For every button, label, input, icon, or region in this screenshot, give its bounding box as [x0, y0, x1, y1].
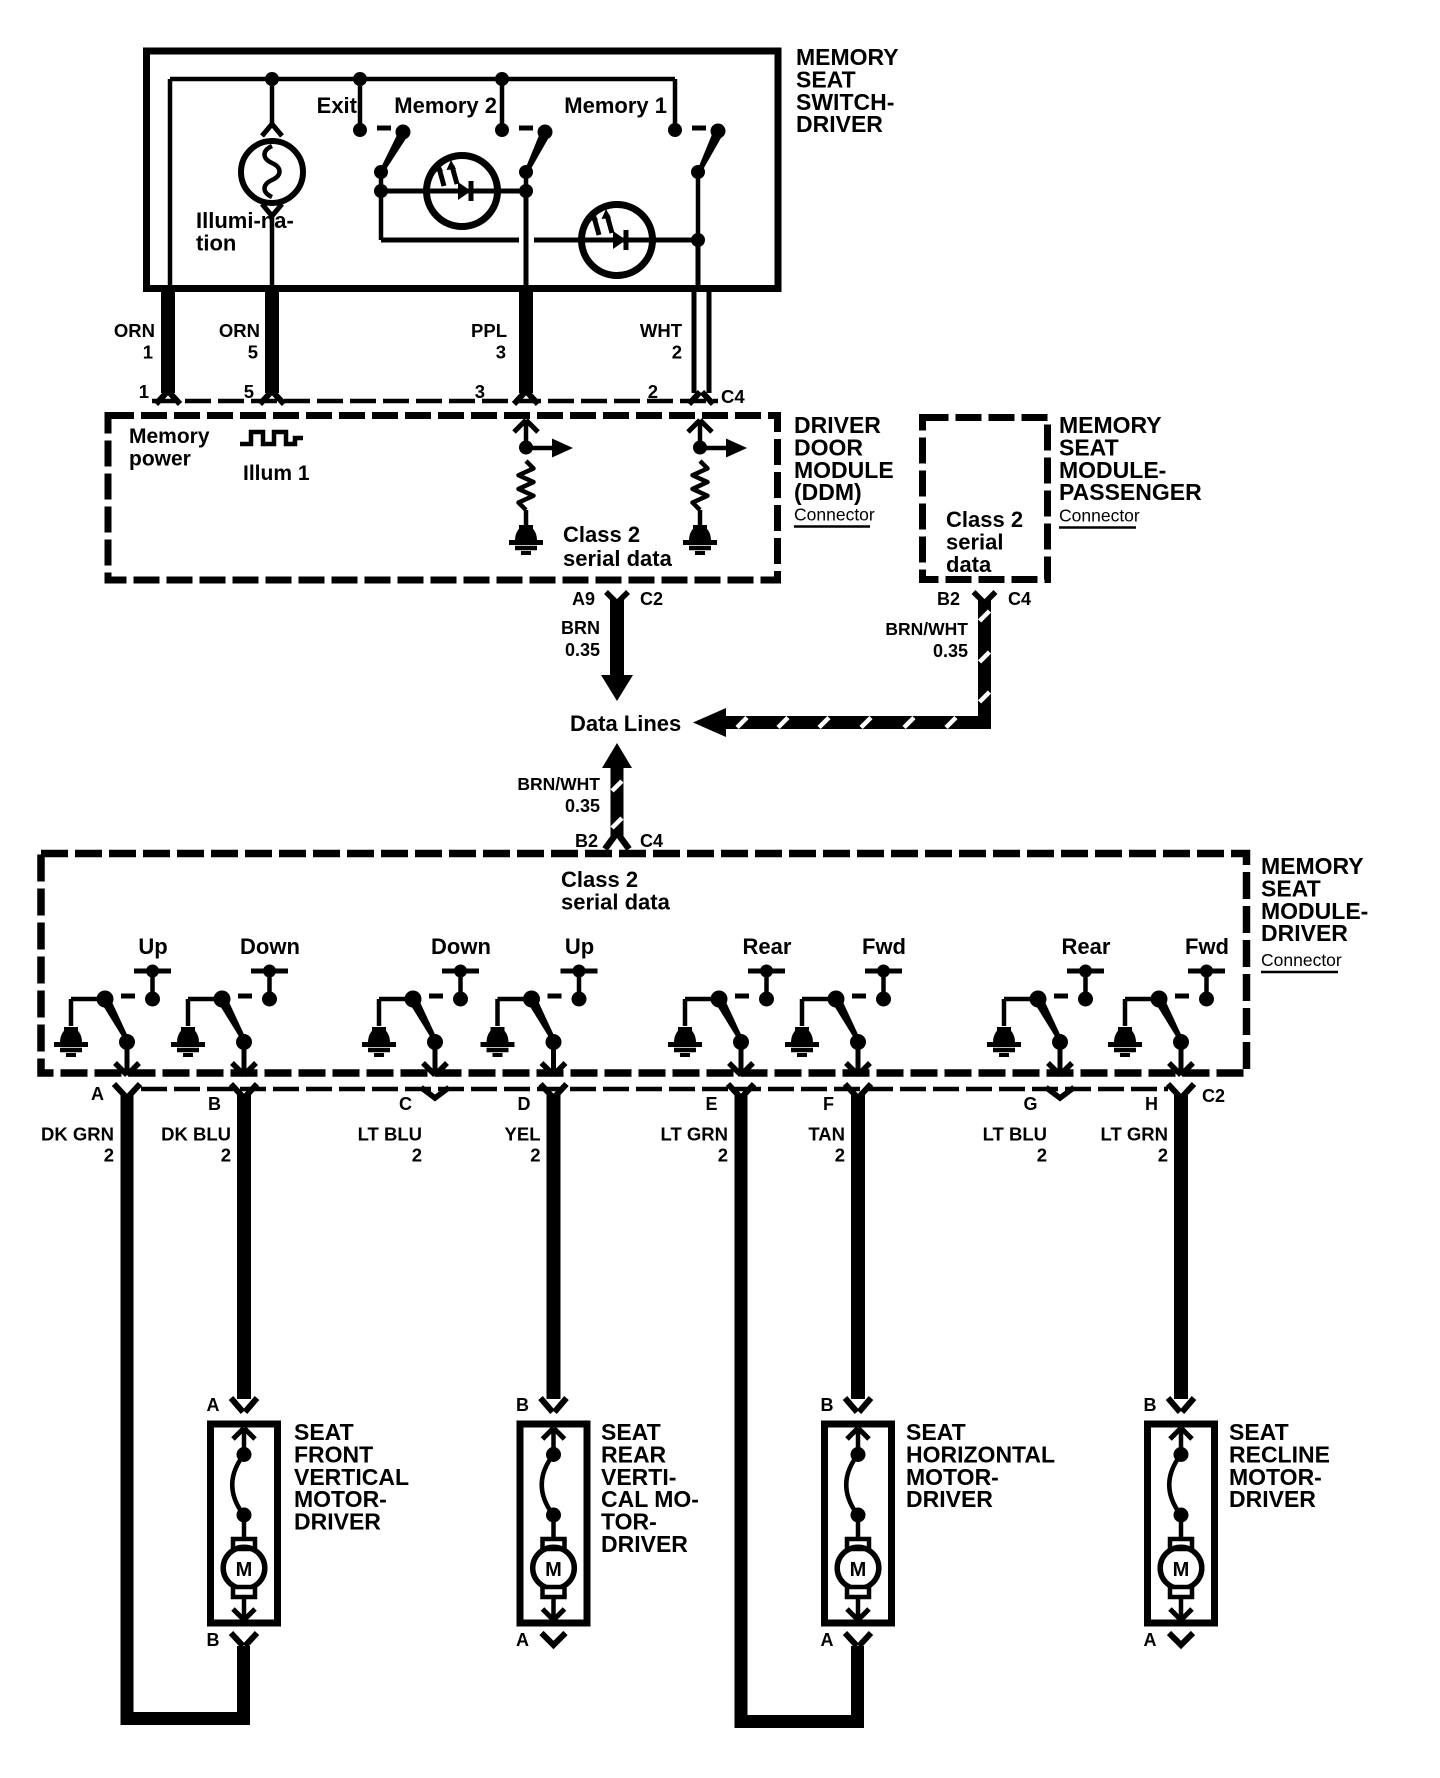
ground: switch A	[60, 1028, 82, 1043]
node: Memory2 fixed contact	[495, 123, 509, 137]
node: B output contact	[236, 1034, 252, 1050]
label: Class 2 serial data (DDM)	[563, 522, 673, 571]
node: Memory1 fixed contact	[668, 123, 682, 137]
wire: Memory2 contact to LED1 bus	[524, 172, 529, 191]
wire: LED2 bus right segment (break at crossing)	[534, 238, 698, 243]
node: WHT branch junction	[693, 441, 707, 455]
ground: switch E	[674, 1028, 696, 1043]
switch SW1 Exit: contact stub	[358, 79, 363, 128]
node: H output contact	[1173, 1034, 1189, 1050]
svg-text:2: 2	[672, 342, 682, 363]
label: ORN / 5	[219, 320, 260, 363]
svg-text:(DDM): (DDM)	[794, 479, 862, 505]
motor M2 seat rear vertical: bottom arrow	[543, 1597, 565, 1620]
label: M4 seat recline	[1229, 1419, 1330, 1512]
symbol: Illum 1 pulse waveform	[240, 432, 303, 444]
connector pin symbol B (motor M4 seat recline)	[1168, 1398, 1180, 1412]
svg-text:D: D	[518, 1094, 531, 1114]
svg-text:M: M	[545, 1559, 562, 1581]
arrow: B output to connector	[232, 1042, 256, 1075]
switch: seat Down (C)	[379, 934, 491, 1026]
svg-text:2: 2	[835, 1145, 845, 1166]
label: BRN / 0.35	[561, 618, 600, 660]
arrow: A output to connector	[115, 1042, 139, 1075]
motor M4 seat recline: brush	[1170, 1587, 1192, 1597]
arrow: F output to connector	[846, 1042, 870, 1075]
node: A output contact	[119, 1034, 135, 1050]
motor M3 seat horizontal: brush	[847, 1539, 869, 1549]
svg-text:Illum 1: Illum 1	[243, 462, 310, 485]
motor M3 seat horizontal: armature M	[837, 1547, 879, 1589]
svg-text:H: H	[1145, 1094, 1158, 1114]
box: MEMORY SEAT MODULE-PASSENGER	[923, 418, 1048, 580]
box: M4 seat recline motor-driver	[1148, 1424, 1215, 1623]
motor M3 seat horizontal: brush	[847, 1587, 869, 1597]
svg-text:serial data: serial data	[563, 546, 673, 571]
wire: top bus	[170, 77, 675, 82]
svg-text:M: M	[1173, 1559, 1190, 1581]
svg-text:A: A	[207, 1395, 220, 1415]
motor M3 seat horizontal: sensor top node	[851, 1447, 866, 1462]
svg-text:DK GRN: DK GRN	[41, 1124, 114, 1145]
wire: BRN/WHT 0.35 driver module to data lines (up arrow)	[602, 743, 632, 836]
svg-text:DRIVER: DRIVER	[906, 1486, 993, 1512]
svg-text:Down: Down	[240, 934, 300, 959]
label: Memory power	[129, 425, 210, 470]
svg-text:LT BLU: LT BLU	[983, 1124, 1047, 1145]
node: Memory1 blade pivot	[711, 124, 726, 139]
svg-text:Illumi-na-: Illumi-na-	[196, 208, 294, 233]
switch blade: B	[219, 999, 247, 1042]
LED D1: memory 2 indicator	[427, 156, 498, 227]
svg-text:BRN: BRN	[561, 618, 600, 638]
switch blade: G	[1035, 999, 1063, 1042]
label: DRIVER DOOR MODULE (DDM)	[794, 412, 894, 505]
svg-text:BRN/WHT: BRN/WHT	[885, 619, 968, 639]
motor M4 seat recline: armature M	[1160, 1547, 1202, 1589]
svg-text:B: B	[821, 1395, 834, 1415]
wire: WHT vertical inside box	[696, 240, 701, 285]
svg-text:data: data	[946, 552, 992, 577]
svg-text:DRIVER: DRIVER	[294, 1509, 381, 1535]
svg-text:0.35: 0.35	[933, 641, 968, 661]
motor M3 seat horizontal: top arrow	[847, 1428, 869, 1454]
arrow: WHT data branch (right)	[700, 439, 747, 458]
motor M4 seat recline: brush	[1170, 1539, 1192, 1549]
svg-text:3: 3	[496, 342, 506, 363]
connector pin symbol A (motor M1 seat front vertical)	[231, 1398, 243, 1412]
box: M1 seat front vertical motor-driver	[211, 1424, 278, 1623]
stripes on BRN/WHT wire	[737, 611, 989, 727]
svg-text:B: B	[516, 1395, 529, 1415]
motor M2 seat rear vertical: top arrow	[543, 1428, 565, 1454]
motor M1 seat front vertical: brush	[233, 1539, 255, 1549]
svg-text:Connector: Connector	[794, 505, 875, 525]
label: Connector (DDM)	[794, 505, 875, 527]
LED D2: memory 1 indicator	[582, 205, 653, 276]
resistor: PPL termination	[519, 461, 534, 510]
node: Exit lower contact	[374, 165, 388, 179]
label: YEL / 2 (D)	[505, 1124, 541, 1166]
svg-text:G: G	[1023, 1094, 1037, 1114]
svg-text:B: B	[1144, 1395, 1157, 1415]
svg-text:2: 2	[1158, 1145, 1168, 1166]
motor M2 seat rear vertical: lead to armature	[551, 1515, 556, 1539]
svg-text:Memory 2: Memory 2	[394, 93, 497, 118]
box: M2 seat rear vertical motor-driver	[520, 1424, 587, 1623]
svg-text:Down: Down	[431, 934, 491, 959]
box: MEMORY SEAT SWITCH-DRIVER	[147, 51, 779, 289]
label: BRN/WHT / 0.35 (driver)	[517, 774, 600, 816]
svg-text:PASSENGER: PASSENGER	[1059, 479, 1202, 505]
label: Illumi-na-tion	[196, 208, 294, 255]
svg-text:Memory: Memory	[129, 425, 210, 448]
switch SW2 Memory2: dashed link	[519, 126, 533, 131]
wire: resistor to ground	[524, 510, 529, 525]
motor M2 seat rear vertical: armature M	[533, 1547, 575, 1589]
switch: seat Up (A)	[71, 934, 171, 1026]
arrow: G output to connector	[1048, 1042, 1072, 1075]
svg-text:B2: B2	[937, 589, 960, 609]
motor M1 seat front vertical: armature M	[223, 1547, 265, 1589]
connector pin symbol A (motor bottom)	[845, 1633, 857, 1646]
box: DRIVER DOOR MODULE (DDM)	[108, 416, 778, 581]
switch SW3 Memory1: dashed link	[692, 126, 706, 131]
svg-text:B: B	[207, 1630, 220, 1650]
wire: resistor to ground	[698, 510, 703, 525]
wire: LED2 bus left segment	[381, 238, 519, 243]
motor M2 seat rear vertical: sensor bottom node	[546, 1508, 561, 1523]
label: WHT / 2	[640, 320, 683, 363]
node: E output contact	[733, 1034, 749, 1050]
wire: ORN circuit 1	[161, 285, 175, 393]
box: M3 seat horizontal motor-driver	[825, 1424, 892, 1623]
svg-text:LT GRN: LT GRN	[661, 1124, 728, 1145]
switch blade: C	[410, 999, 438, 1042]
switch blade: H	[1156, 999, 1184, 1042]
motor M1 seat front vertical: brush	[233, 1587, 255, 1597]
label: Class 2 serial data (passenger)	[946, 507, 1023, 577]
svg-text:YEL: YEL	[505, 1124, 541, 1145]
connector pin symbol A	[114, 1084, 126, 1097]
node: G output contact	[1052, 1034, 1068, 1050]
svg-text:M: M	[850, 1559, 867, 1581]
svg-text:C4: C4	[640, 831, 663, 851]
motor M3 seat horizontal: sensor bottom node	[851, 1508, 866, 1523]
label: TAN / 2 (F)	[808, 1124, 845, 1166]
svg-text:C: C	[399, 1094, 412, 1114]
arrow: H output to connector	[1169, 1042, 1193, 1075]
motor M1 seat front vertical: sensor bottom node	[237, 1508, 252, 1523]
node: Exit fixed contact	[353, 123, 367, 137]
label: ORN / 1	[114, 320, 155, 363]
motor M1 seat front vertical: position sensor arc	[232, 1455, 244, 1515]
svg-text:Exit: Exit	[317, 93, 358, 118]
switch blade: A	[102, 999, 130, 1042]
connector pin symbol A (motor bottom)	[1169, 1633, 1193, 1645]
svg-text:B: B	[208, 1094, 221, 1114]
svg-text:A: A	[1144, 1630, 1157, 1650]
connector pin symbol H	[1168, 1084, 1180, 1097]
wire: LT GRN 2 (E) with return loop to motor 3	[741, 1095, 858, 1722]
label: M1 seat front vertical	[294, 1419, 409, 1535]
wire: PPL circuit 3	[519, 285, 533, 393]
connector pin symbol D	[541, 1084, 553, 1097]
wire: left side vertical (to ORN 1)	[168, 79, 173, 285]
switch blade: F	[833, 999, 861, 1042]
svg-text:ORN: ORN	[219, 320, 260, 341]
node: Memory1/LED2/WHT junction	[691, 233, 705, 247]
arrow: class2 WHT entry (up)	[688, 420, 712, 447]
svg-text:E: E	[705, 1094, 717, 1114]
motor M3 seat horizontal: lead to armature	[856, 1515, 861, 1539]
svg-text:Fwd: Fwd	[1185, 934, 1229, 959]
switch: seat Down (B)	[188, 934, 300, 1026]
wire: WHT circuit 2 (white wire, double line)	[694, 285, 709, 393]
switch SW2 Memory2: blade	[525, 132, 550, 172]
connector pin symbol F	[845, 1084, 857, 1097]
motor M4 seat recline: position sensor arc	[1169, 1455, 1181, 1515]
connector dashed line (DDM C4)	[152, 399, 718, 404]
connector pin 1 symbol	[156, 392, 167, 404]
svg-text:Fwd: Fwd	[862, 934, 906, 959]
svg-text:B2: B2	[575, 831, 598, 851]
switch: seat Rear (E)	[685, 934, 792, 1026]
svg-text:2: 2	[221, 1145, 231, 1166]
svg-text:power: power	[129, 447, 191, 470]
connector pin symbol E	[728, 1084, 740, 1097]
node: Exit blade pivot	[396, 125, 411, 140]
connector exit symbol B2/C4 (passenger)	[974, 592, 984, 602]
label: Connector (driver)	[1261, 950, 1342, 972]
svg-text:C4: C4	[721, 386, 745, 407]
ground: switch B	[177, 1028, 199, 1043]
switch: seat Fwd (H)	[1125, 934, 1229, 1026]
wire: lamp top lead	[270, 79, 275, 124]
wire: bus right corner stub	[673, 79, 678, 128]
svg-text:2: 2	[412, 1145, 422, 1166]
svg-text:DRIVER: DRIVER	[1229, 1486, 1316, 1512]
svg-text:PPL: PPL	[471, 320, 507, 341]
wire: LED1 bus	[381, 189, 526, 194]
connector pin symbol C (no wire)	[421, 1088, 449, 1099]
ground: switch C	[368, 1028, 390, 1043]
connector pin 5 symbol	[260, 392, 271, 404]
svg-text:1: 1	[139, 381, 149, 402]
svg-text:F: F	[823, 1094, 834, 1114]
wire: DK BLU 2 (B)	[237, 1095, 251, 1399]
svg-text:LT GRN: LT GRN	[1101, 1124, 1168, 1145]
ground: WHT termination	[689, 526, 711, 541]
arrow: class2 PPL entry (up)	[514, 420, 538, 447]
svg-text:2: 2	[530, 1145, 540, 1166]
svg-text:LT BLU: LT BLU	[358, 1124, 422, 1145]
svg-text:A: A	[821, 1630, 834, 1650]
svg-text:Class 2: Class 2	[561, 867, 638, 892]
lamp top chevron	[262, 124, 282, 136]
ground: switch F	[791, 1028, 813, 1043]
node: Memory2 blade pivot	[538, 125, 553, 140]
lamp L1: illumination bulb	[241, 141, 303, 203]
motor M2 seat rear vertical: brush	[543, 1587, 565, 1597]
ground: PPL termination	[515, 526, 537, 541]
node: bus/illumination junction	[265, 72, 279, 86]
svg-text:serial: serial	[946, 529, 1004, 554]
wire: BRN 0.35 (down arrow)	[601, 600, 633, 701]
svg-text:serial data: serial data	[561, 890, 671, 915]
wire: Exit contact to LED1 bus	[379, 172, 384, 191]
connector pin symbol B	[231, 1084, 243, 1097]
arrow: E output to connector	[729, 1042, 753, 1075]
switch blade: E	[716, 999, 744, 1042]
label: DK BLU / 2 (B)	[161, 1124, 231, 1166]
label: LT GRN / 2 (E)	[661, 1124, 728, 1166]
svg-text:2: 2	[718, 1145, 728, 1166]
svg-text:C2: C2	[1202, 1086, 1225, 1106]
arrow: C output to connector	[423, 1042, 447, 1075]
switch SW3 Memory1: blade	[698, 131, 723, 171]
wire: LED1 bus to LED2 bus drop	[379, 191, 384, 240]
node: bus/Memory2 junction	[495, 72, 509, 86]
svg-text:Connector: Connector	[1261, 950, 1342, 970]
motor M4 seat recline: lead to armature	[1179, 1515, 1184, 1539]
node: F output contact	[850, 1034, 866, 1050]
label: BRN/WHT / 0.35 (passenger)	[885, 619, 968, 661]
svg-text:DRIVER: DRIVER	[601, 1531, 688, 1557]
svg-text:2: 2	[1037, 1145, 1047, 1166]
svg-text:DRIVER: DRIVER	[796, 111, 883, 137]
label: MEMORY SEAT MODULE-PASSENGER	[1059, 412, 1202, 505]
wire: BRN/WHT 0.35 passenger to data lines	[693, 600, 985, 737]
connector dashed line (driver module C2)	[141, 1087, 1168, 1092]
motor M1 seat front vertical: sensor top node	[237, 1447, 252, 1462]
connector pin symbol B (motor bottom)	[231, 1633, 243, 1646]
svg-text:DK BLU: DK BLU	[161, 1124, 231, 1145]
label: LT BLU / 2 (G)	[983, 1124, 1047, 1166]
ground: switch H	[1114, 1028, 1136, 1043]
motor M2 seat rear vertical: position sensor arc	[542, 1455, 554, 1515]
svg-text:1: 1	[143, 342, 153, 363]
svg-text:TAN: TAN	[808, 1124, 845, 1145]
label: M3 seat horizontal	[906, 1419, 1055, 1512]
ground: switch D	[487, 1028, 509, 1043]
wire: lamp bottom lead (to ORN 5)	[270, 216, 275, 285]
node: PPL branch junction	[519, 441, 533, 455]
svg-text:Rear: Rear	[1062, 934, 1111, 959]
node: C output contact	[427, 1034, 443, 1050]
motor M1 seat front vertical: lead to armature	[242, 1515, 247, 1539]
motor M4 seat recline: sensor top node	[1174, 1447, 1189, 1462]
motor M1 seat front vertical: bottom arrow	[233, 1597, 255, 1620]
node: Exit/LED1 junction	[374, 184, 388, 198]
connector pin symbol B (motor M2 seat rear vertical)	[541, 1398, 553, 1412]
wire: DK GRN 2 (A) with return loop to motor 1	[127, 1095, 244, 1719]
arrow: D output to connector	[542, 1042, 566, 1075]
lamp bottom chevron	[262, 204, 282, 216]
svg-text:Memory 1: Memory 1	[564, 93, 667, 118]
switch: seat Up (D)	[498, 934, 598, 1026]
switch: seat Fwd (F)	[802, 934, 906, 1026]
svg-text:ORN: ORN	[114, 320, 155, 341]
svg-text:0.35: 0.35	[565, 796, 600, 816]
svg-text:C4: C4	[1008, 589, 1031, 609]
motor M1 seat front vertical: top arrow	[233, 1428, 255, 1454]
wire: YEL 2 (D)	[547, 1095, 561, 1399]
switch: seat Rear (G)	[1004, 934, 1111, 1026]
motor M4 seat recline: sensor bottom node	[1174, 1508, 1189, 1523]
connector entry symbol B2/C4 (driver)	[605, 834, 616, 849]
label: MEMORY SEAT SWITCH-DRIVER	[796, 44, 899, 137]
connector pin symbol B (motor M3 seat horizontal)	[845, 1398, 857, 1412]
svg-text:2: 2	[104, 1145, 114, 1166]
svg-text:A: A	[516, 1630, 529, 1650]
label: MEMORY SEAT MODULE-DRIVER	[1261, 853, 1368, 946]
stripes on BRN/WHT wire	[612, 781, 622, 828]
node: Memory2 lower contact	[519, 165, 533, 179]
node: Memory2/LED1/PPL junction	[519, 184, 533, 198]
connector pin symbol A (motor bottom)	[542, 1633, 566, 1645]
wire: PPL vertical inside box	[524, 191, 529, 285]
connector exit symbol A9/C2	[606, 592, 616, 602]
switch SW1 Exit: dashed link	[377, 126, 391, 131]
wire: ORN circuit 5	[265, 285, 279, 393]
svg-text:C2: C2	[640, 589, 663, 609]
label: Connector (passenger)	[1059, 506, 1140, 528]
wire: TAN 2 (F)	[851, 1095, 865, 1399]
node: Memory1 lower contact	[691, 165, 705, 179]
svg-text:Up: Up	[138, 934, 167, 959]
svg-text:Rear: Rear	[743, 934, 792, 959]
motor M2 seat rear vertical: sensor top node	[546, 1447, 561, 1462]
svg-text:M: M	[236, 1559, 253, 1581]
svg-text:DRIVER: DRIVER	[1261, 920, 1348, 946]
connector pin 3 symbol	[514, 392, 525, 404]
svg-text:Class 2: Class 2	[946, 507, 1023, 532]
motor M4 seat recline: bottom arrow	[1170, 1597, 1192, 1620]
motor M2 seat rear vertical: brush	[543, 1539, 565, 1549]
label: DK GRN / 2 (A)	[41, 1124, 114, 1166]
ground: switch G	[993, 1028, 1015, 1043]
svg-text:Up: Up	[565, 934, 594, 959]
motor M4 seat recline: top arrow	[1170, 1428, 1192, 1454]
box: MEMORY SEAT MODULE-DRIVER	[41, 854, 1247, 1074]
svg-text:5: 5	[248, 342, 258, 363]
label: LT GRN / 2 (H)	[1101, 1124, 1168, 1166]
wire: Memory1 contact to LED2 bus	[696, 172, 701, 240]
svg-text:0.35: 0.35	[565, 640, 600, 660]
svg-text:A9: A9	[572, 589, 595, 609]
connector pin 2 symbol	[689, 392, 700, 404]
switch SW2 Memory2: contact stub	[500, 79, 505, 128]
svg-text:Class 2: Class 2	[563, 522, 640, 547]
svg-text:tion: tion	[196, 230, 236, 255]
svg-text:BRN/WHT: BRN/WHT	[517, 774, 600, 794]
node: bus/Exit junction	[353, 72, 367, 86]
svg-text:Connector: Connector	[1059, 506, 1140, 526]
label: Class 2 serial data (driver)	[561, 867, 671, 915]
svg-text:Data Lines: Data Lines	[570, 711, 681, 736]
label: PPL / 3	[471, 320, 507, 363]
node: D output contact	[546, 1034, 562, 1050]
motor M3 seat horizontal: bottom arrow	[847, 1597, 869, 1620]
label: LT BLU / 2 (C)	[358, 1124, 422, 1166]
connector pin symbol G (no wire)	[1046, 1088, 1074, 1099]
svg-text:WHT: WHT	[640, 320, 683, 341]
svg-text:A: A	[91, 1084, 104, 1104]
arrow: PPL data branch (right)	[526, 439, 573, 458]
switch blade: D	[528, 999, 556, 1042]
switch SW1 Exit: blade	[380, 132, 407, 173]
